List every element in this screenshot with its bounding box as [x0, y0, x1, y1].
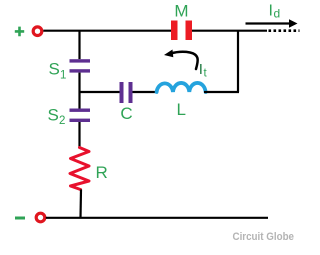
plus terminal label — [15, 27, 24, 37]
negative terminal circle — [36, 213, 45, 222]
switch S1 (two purple plates) — [70, 59, 91, 72]
svg-text:C: C — [120, 104, 132, 123]
wire dotted continuation top right — [269, 29, 300, 32]
svg-text:S: S — [48, 106, 59, 125]
current arrow Id — [246, 22, 291, 24]
wire from resistor to bottom wire — [79, 190, 82, 218]
resistor R zigzag — [70, 148, 89, 190]
minus terminal label — [15, 217, 25, 220]
svg-text:R: R — [96, 163, 108, 182]
wire top left from terminal to M — [43, 30, 171, 32]
switch S2 (two purple plates) — [70, 109, 91, 123]
svg-text:L: L — [177, 100, 186, 119]
wire top right from M to right branch — [192, 30, 267, 32]
wire between S1 and S2 — [78, 73, 80, 109]
wire right vertical branch — [237, 31, 239, 92]
current arrow It (curved) — [171, 52, 198, 69]
wire from inductor to right branch — [204, 91, 239, 93]
wire from C to inductor L — [133, 91, 158, 93]
svg-text:t: t — [204, 68, 208, 80]
svg-text:2: 2 — [59, 115, 65, 127]
svg-text:I: I — [269, 3, 273, 20]
wire from S2 down to resistor — [78, 122, 80, 148]
svg-text:M: M — [174, 2, 188, 21]
positive terminal circle — [33, 27, 42, 36]
capacitor C (two purple plates) — [120, 82, 133, 103]
bottom wire — [46, 217, 268, 219]
svg-text:I: I — [199, 61, 203, 78]
middle wire from left branch to capacitor C — [80, 91, 120, 93]
svg-text:S: S — [49, 60, 60, 79]
component M (two red plates) — [171, 21, 192, 41]
svg-text:d: d — [274, 7, 281, 21]
wire left vertical top (terminal wire down to S1) — [78, 31, 80, 60]
svg-text:Circuit Globe: Circuit Globe — [233, 231, 295, 243]
svg-text:1: 1 — [60, 70, 66, 82]
inductor L coil — [157, 83, 206, 92]
